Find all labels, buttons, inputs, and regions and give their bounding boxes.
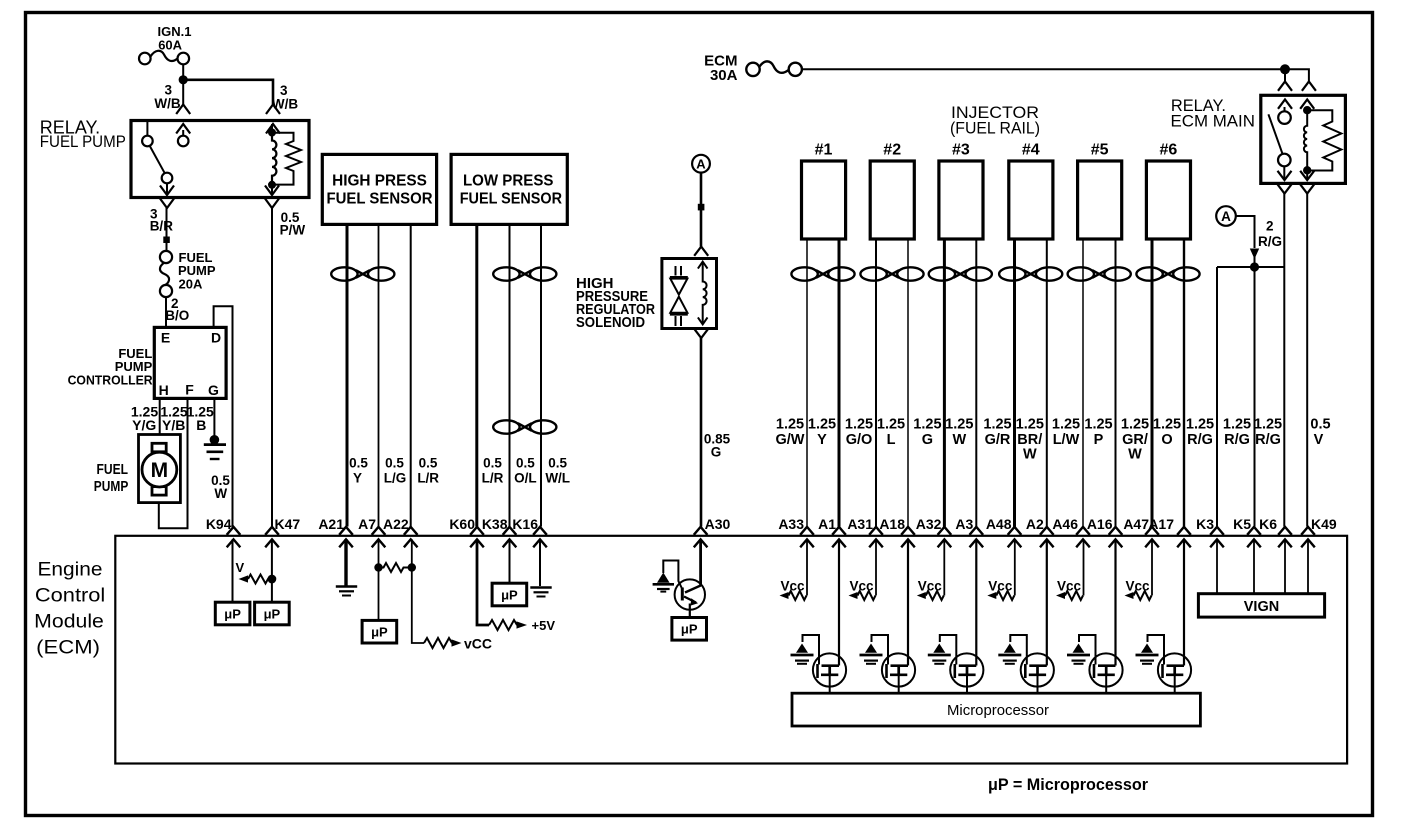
injector #4 wire 2 xyxy=(1046,239,1048,527)
svg-text:ECM MAIN: ECM MAIN xyxy=(1171,111,1255,130)
svg-text:E: E xyxy=(161,330,170,346)
svg-text:μP = Microprocessor: μP = Microprocessor xyxy=(988,775,1148,794)
injector #5 wire 1 xyxy=(1082,239,1084,527)
svg-text:H: H xyxy=(159,382,169,398)
uP box A7 xyxy=(362,620,397,643)
svg-text:PUMP: PUMP xyxy=(94,478,129,495)
svg-text:L/R: L/R xyxy=(482,471,504,486)
svg-text:G: G xyxy=(208,382,219,398)
label 0.5 W xyxy=(211,473,230,501)
fuse ECM 30A xyxy=(704,53,802,85)
svg-text:M: M xyxy=(151,459,169,482)
wire sensor to A7 xyxy=(378,224,380,526)
svg-text:FUEL: FUEL xyxy=(97,461,129,478)
svg-text:A47: A47 xyxy=(1123,516,1149,532)
wire IGN.1 fuse to junction xyxy=(182,64,184,78)
injector #5 box xyxy=(1078,142,1122,240)
arrow out of solenoid xyxy=(694,329,708,338)
connector A32 xyxy=(916,516,951,547)
wire 2 B/O xyxy=(165,297,167,327)
injector #6 wire 1 xyxy=(1151,239,1154,527)
relay ECM MAIN coil xyxy=(1304,110,1307,170)
relay switch bottom circle xyxy=(1278,154,1291,167)
wire pin G to ground xyxy=(213,398,215,436)
fuse FUEL PUMP 20A xyxy=(160,251,172,297)
motor brush bottom xyxy=(152,487,166,496)
zener pair inside solenoid xyxy=(670,266,688,326)
svg-text:W/L: W/L xyxy=(545,471,570,486)
twisted pair injector #2 xyxy=(860,267,923,280)
svg-text:Microprocessor: Microprocessor xyxy=(947,703,1049,719)
relay switch contact circle B xyxy=(178,136,189,147)
svg-text:FUEL PUMP: FUEL PUMP xyxy=(40,132,126,151)
splice square on solenoid wire xyxy=(698,204,705,211)
gate ground triangle (A30) xyxy=(653,573,674,592)
svg-text:A32: A32 xyxy=(916,516,942,532)
injector #1 wire 2 xyxy=(838,239,841,527)
injector driver #1 (FET + Vcc + gate clamp) xyxy=(780,539,847,693)
wire 0.85 G to A30 xyxy=(700,338,703,527)
svg-text:Engine: Engine xyxy=(38,560,103,581)
svg-text:Y/G: Y/G xyxy=(132,417,156,433)
svg-text:#2: #2 xyxy=(883,142,901,159)
wire 0.5 P/W relay to K47 xyxy=(271,208,273,527)
svg-text:W: W xyxy=(1023,447,1037,463)
wire pin F loop to motor bottom xyxy=(159,398,188,528)
injector driver #2 (FET + Vcc + gate clamp) xyxy=(849,539,916,693)
injector #5 wire 2 xyxy=(1115,239,1117,527)
label 3 B/R xyxy=(150,207,174,234)
wire sensor to A22 xyxy=(410,224,412,526)
wire junction right branch xyxy=(1285,69,1309,81)
label RELAY FUEL PUMP xyxy=(40,118,126,152)
relay switch blade xyxy=(150,146,165,173)
svg-text:W: W xyxy=(952,432,966,448)
svg-text:R/G: R/G xyxy=(1258,234,1282,249)
svg-text:1.25: 1.25 xyxy=(1153,417,1181,433)
relay FUEL PUMP box xyxy=(131,121,309,198)
injector #2 wire 1 xyxy=(875,239,877,527)
svg-text:A33: A33 xyxy=(778,516,804,532)
svg-text:K16: K16 xyxy=(512,516,538,532)
connector A2 xyxy=(1026,516,1054,547)
node A (solenoid top) xyxy=(692,155,710,173)
wire pin H to motor xyxy=(159,398,161,435)
arrows into ECM main relay right xyxy=(1300,82,1316,109)
svg-text:O: O xyxy=(1161,432,1172,448)
svg-text:1.25: 1.25 xyxy=(877,417,905,433)
motor brush top xyxy=(152,443,166,452)
injector #3 wire 2 xyxy=(975,239,977,527)
wire relay switch to K6 xyxy=(1283,194,1285,527)
junction dot coil bottom xyxy=(1303,166,1311,174)
relay coil xyxy=(272,133,276,185)
fuel pump controller box xyxy=(154,327,226,398)
svg-text:R/G: R/G xyxy=(1187,432,1213,448)
svg-text:L: L xyxy=(887,432,896,448)
relay coil branch wire xyxy=(271,124,273,133)
wire K38 to uP xyxy=(509,539,511,582)
label 3 W/B left xyxy=(154,82,180,111)
wire A30 to transistor xyxy=(699,539,702,586)
svg-text:SOLENOID: SOLENOID xyxy=(576,314,645,331)
svg-text:B/O: B/O xyxy=(165,308,189,323)
injector #2 wire 2 xyxy=(907,239,909,527)
svg-text:1.25: 1.25 xyxy=(1052,417,1080,433)
solid arrow down on R/G wire xyxy=(1250,249,1259,260)
relay coil parallel resistor xyxy=(272,133,301,185)
wire sensor to K38 xyxy=(509,224,511,526)
injector #6 wire 2 xyxy=(1183,239,1185,527)
wire switch to box bottom xyxy=(1283,166,1285,179)
svg-text:FUEL SENSOR: FUEL SENSOR xyxy=(460,191,563,208)
svg-text:A21: A21 xyxy=(318,516,344,532)
wire 3 B/R xyxy=(166,208,168,252)
connector K3 xyxy=(1196,516,1224,547)
svg-text:+5V: +5V xyxy=(532,618,556,633)
svg-text:(FUEL RAIL): (FUEL RAIL) xyxy=(950,119,1040,138)
wire K60 to +5V resistor xyxy=(477,539,489,625)
svg-text:K94: K94 xyxy=(206,516,232,532)
wire K6 to VIGN xyxy=(1284,539,1286,593)
svg-text:A30: A30 xyxy=(705,516,731,532)
twisted pair injector #5 xyxy=(1068,267,1131,280)
wire K16 to ground xyxy=(539,539,541,586)
wire sensor to A21 xyxy=(346,224,349,526)
svg-text:A3: A3 xyxy=(955,516,973,532)
resistor A22 VCC xyxy=(424,638,462,648)
svg-text:A18: A18 xyxy=(879,516,905,532)
ground for pin G (dot + bars) xyxy=(204,435,226,459)
svg-text:Y/B: Y/B xyxy=(162,417,185,433)
twisted pair injector #3 xyxy=(929,267,992,280)
wire ECM 30A to ECM MAIN relay xyxy=(802,68,1285,70)
connector A22 xyxy=(383,516,417,547)
arrows into ECM main relay left xyxy=(1278,82,1292,109)
arrows out of relay bottom left xyxy=(160,186,174,209)
svg-text:V: V xyxy=(236,560,245,575)
wire coil to box bottom xyxy=(1306,170,1308,179)
svg-text:A17: A17 xyxy=(1148,516,1174,532)
svg-text:0.5: 0.5 xyxy=(385,456,404,471)
svg-text:20A: 20A xyxy=(179,277,203,292)
svg-text:1.25: 1.25 xyxy=(983,417,1011,433)
injector #4 box xyxy=(1009,142,1053,240)
svg-text:R/G: R/G xyxy=(1224,432,1250,448)
transistor Q (A30 driver) xyxy=(663,561,705,617)
connector K49 xyxy=(1301,516,1337,547)
relay switch contact circle A xyxy=(142,136,153,147)
arrows out of ECM main relay left xyxy=(1278,171,1292,194)
relay ECM MAIN box xyxy=(1261,95,1346,183)
injector #3 wire 1 xyxy=(943,239,946,527)
motor circle M xyxy=(142,452,177,487)
wire to K3 xyxy=(1216,267,1218,527)
svg-text:A16: A16 xyxy=(1087,516,1113,532)
svg-text:V: V xyxy=(1314,432,1324,448)
high press fuel sensor box xyxy=(322,154,436,224)
horizontal R/G bus xyxy=(1217,266,1284,268)
svg-text:A: A xyxy=(1221,209,1231,224)
wire A to solenoid xyxy=(700,173,703,247)
svg-text:A: A xyxy=(696,157,706,172)
VIGN box xyxy=(1198,594,1324,617)
connector A18 xyxy=(879,516,914,547)
twisted pair low press upper xyxy=(493,267,556,280)
connector K6 xyxy=(1259,516,1292,547)
label HIGH PRESSURE REGULATOR SOLENOID xyxy=(576,275,655,331)
label 0.85 G xyxy=(704,432,731,460)
ground K16 xyxy=(530,588,551,597)
wire sensor to K16 xyxy=(540,224,542,526)
injector driver #6 (FET + Vcc + gate clamp) xyxy=(1125,539,1192,693)
svg-text:W: W xyxy=(1128,447,1142,463)
connector A46 xyxy=(1052,516,1089,547)
svg-text:A31: A31 xyxy=(847,516,873,532)
connector K60 xyxy=(449,516,483,547)
relay switch wire in xyxy=(1284,107,1286,111)
svg-text:VIGN: VIGN xyxy=(1244,599,1279,615)
labels 0.5 L/R | 0.5 O/L | 0.5 W/L xyxy=(482,456,570,486)
resistor A7-A22 xyxy=(374,563,416,572)
svg-text:0.5: 0.5 xyxy=(1310,417,1330,433)
svg-text:HIGH PRESS: HIGH PRESS xyxy=(332,172,427,189)
label INJECTOR (FUEL RAIL) xyxy=(950,103,1040,138)
wire switch output to box bottom xyxy=(166,183,168,194)
svg-text:Y: Y xyxy=(817,432,827,448)
svg-text:Module: Module xyxy=(34,612,104,633)
wire sensor to K60 xyxy=(475,224,478,526)
uP box K94 xyxy=(215,602,250,625)
svg-text:60A: 60A xyxy=(158,38,182,53)
wire into contact B xyxy=(182,130,184,136)
svg-text:B: B xyxy=(196,417,206,433)
connector A21 xyxy=(318,516,352,547)
svg-text:0.5: 0.5 xyxy=(548,456,567,471)
svg-text:K38: K38 xyxy=(482,516,508,532)
label FUEL PUMP (motor) xyxy=(94,461,129,495)
connector A48 xyxy=(986,516,1021,547)
ground A21 xyxy=(336,587,357,596)
svg-text:R/G: R/G xyxy=(1255,432,1281,448)
wire K5 to VIGN xyxy=(1253,539,1255,593)
wire relay coil to K49 xyxy=(1306,194,1308,527)
svg-text:L/R: L/R xyxy=(417,471,439,486)
injector #6 box xyxy=(1146,142,1190,240)
connector A7 xyxy=(358,516,385,547)
relay switch top circle xyxy=(1278,111,1291,124)
wire node A to junction xyxy=(1236,216,1255,248)
svg-text:G/W: G/W xyxy=(776,432,805,448)
junction dot coil top xyxy=(268,129,276,137)
svg-text:0.5: 0.5 xyxy=(516,456,535,471)
svg-text:0.5: 0.5 xyxy=(419,456,438,471)
twisted pair high press xyxy=(331,267,394,280)
svg-text:B/R: B/R xyxy=(150,219,174,234)
injector driver #3 (FET + Vcc + gate clamp) xyxy=(917,539,984,693)
svg-text:#5: #5 xyxy=(1091,142,1109,159)
wire size labels injector/relay rows xyxy=(776,417,1331,463)
node A (right) xyxy=(1216,206,1236,226)
wire coil bottom to box bottom xyxy=(271,185,273,194)
uP box K38 xyxy=(492,583,527,606)
label 3 W/B right xyxy=(272,83,298,111)
solenoid box xyxy=(662,259,717,329)
fuel pump motor box xyxy=(139,435,181,503)
svg-text:FUEL SENSOR: FUEL SENSOR xyxy=(327,191,433,208)
connector K16 xyxy=(512,516,546,547)
connector arrows into relay fuel pump (right) xyxy=(266,105,280,134)
Microprocessor box xyxy=(792,693,1200,726)
svg-text:1.25: 1.25 xyxy=(1223,417,1251,433)
relay ECM MAIN parallel resistor xyxy=(1307,110,1341,170)
arrows out of relay bottom right xyxy=(265,186,279,209)
svg-text:G: G xyxy=(711,445,722,460)
wire A7 to uP xyxy=(378,539,380,620)
twisted pair injector #1 xyxy=(791,267,854,280)
svg-text:A46: A46 xyxy=(1052,516,1078,532)
twisted pair low press lower xyxy=(493,420,556,433)
svg-text:CONTROLLER: CONTROLLER xyxy=(68,373,154,388)
svg-text:30A: 30A xyxy=(710,67,738,84)
svg-text:F: F xyxy=(185,382,194,398)
injector #1 box xyxy=(802,142,846,240)
connector A47 xyxy=(1123,516,1158,547)
svg-text:G/O: G/O xyxy=(846,432,873,448)
uP box A30 xyxy=(672,618,707,641)
injector #3 box xyxy=(939,142,983,240)
resistor K94-K47 with left arrow xyxy=(239,575,277,584)
connector A17 xyxy=(1148,516,1190,547)
svg-text:K6: K6 xyxy=(1259,516,1277,532)
svg-text:L/G: L/G xyxy=(384,471,407,486)
wire junction down to relay xyxy=(182,80,184,105)
svg-text:1.25: 1.25 xyxy=(776,417,804,433)
wire A21 to ground xyxy=(344,539,347,585)
svg-text:L/W: L/W xyxy=(1053,432,1080,448)
wire to K5 xyxy=(1254,267,1256,527)
svg-text:#4: #4 xyxy=(1022,142,1040,159)
arrows out of ECM main relay right xyxy=(1300,171,1314,194)
svg-text:A2: A2 xyxy=(1026,516,1044,532)
relay switch output circle xyxy=(162,173,173,184)
svg-text:1.25: 1.25 xyxy=(808,417,836,433)
connector K94 xyxy=(206,516,240,547)
svg-text:Y: Y xyxy=(353,471,362,486)
injector #2 box xyxy=(870,142,914,240)
twisted pair injector #4 xyxy=(999,267,1062,280)
twisted pair injector #6 xyxy=(1136,267,1199,280)
svg-text:LOW PRESS: LOW PRESS xyxy=(463,172,554,189)
fuse IGN.1 60A xyxy=(139,24,191,64)
wire pin D loop to K94 xyxy=(214,306,233,526)
svg-text:W/B: W/B xyxy=(154,96,180,111)
svg-text:G/R: G/R xyxy=(985,432,1011,448)
wire A22 to VCC resistor xyxy=(412,539,424,643)
svg-text:K49: K49 xyxy=(1311,516,1337,532)
svg-text:K47: K47 xyxy=(275,516,301,532)
svg-text:W: W xyxy=(214,486,227,501)
svg-text:1.25: 1.25 xyxy=(1121,417,1149,433)
svg-text:1.25: 1.25 xyxy=(845,417,873,433)
labels 1.25 Y/G | 1.25 Y/B | 1.25 B xyxy=(131,404,214,433)
splice square B/R xyxy=(163,237,170,244)
svg-text:1.25: 1.25 xyxy=(1254,417,1282,433)
junction dot ECM main xyxy=(1280,64,1290,74)
junction dot W/B xyxy=(179,75,188,84)
relay switch blade xyxy=(1268,114,1282,154)
label FUEL PUMP CONTROLLER xyxy=(68,346,154,388)
label 2 B/O xyxy=(165,296,189,323)
wire K94 to uP xyxy=(232,539,234,602)
wire K3 to VIGN xyxy=(1216,539,1218,593)
connector arrows into relay fuel pump (left) xyxy=(176,105,190,134)
svg-text:O/L: O/L xyxy=(514,471,537,486)
svg-text:G: G xyxy=(922,432,933,448)
svg-text:1.25: 1.25 xyxy=(1084,417,1112,433)
svg-text:1.25: 1.25 xyxy=(1186,417,1214,433)
svg-text:P/W: P/W xyxy=(280,222,306,237)
low press fuel sensor box xyxy=(451,154,567,224)
relay switch contact stub xyxy=(146,122,148,136)
connector A1 xyxy=(818,516,846,547)
connector A16 xyxy=(1087,516,1122,547)
svg-text:0.5: 0.5 xyxy=(483,456,502,471)
labels 0.5 Y | 0.5 L/G | 0.5 L/R xyxy=(349,456,439,486)
uP box K47 xyxy=(255,602,290,625)
svg-text:#3: #3 xyxy=(952,142,970,159)
svg-text:1.25: 1.25 xyxy=(1016,417,1044,433)
svg-text:A1: A1 xyxy=(818,516,836,532)
ECM box xyxy=(115,536,1347,764)
svg-text:K3: K3 xyxy=(1196,516,1214,532)
svg-text:P: P xyxy=(1094,432,1104,448)
svg-text:(ECM): (ECM) xyxy=(36,638,100,659)
wire K47 to uP xyxy=(271,539,273,602)
wire K49 to VIGN xyxy=(1307,539,1309,593)
svg-text:#6: #6 xyxy=(1160,142,1178,159)
svg-text:D: D xyxy=(211,330,221,346)
injector driver #4 (FET + Vcc + gate clamp) xyxy=(987,539,1054,693)
connector A30 xyxy=(694,516,731,547)
svg-text:A22: A22 xyxy=(383,516,409,532)
label 2 R/G xyxy=(1258,218,1282,249)
label 0.5 P/W xyxy=(280,210,306,237)
connector K5 xyxy=(1233,516,1261,547)
connector K47 xyxy=(265,516,300,547)
solenoid coil with arrows xyxy=(698,262,708,325)
svg-text:Control: Control xyxy=(35,586,105,607)
svg-text:#1: #1 xyxy=(815,142,833,159)
wire junction to right branch xyxy=(183,80,273,105)
connector A31 xyxy=(847,516,882,547)
label RELAY ECM MAIN xyxy=(1171,96,1255,130)
svg-text:K60: K60 xyxy=(449,516,475,532)
connector A3 xyxy=(955,516,983,547)
svg-text:0.5: 0.5 xyxy=(349,456,368,471)
label FUEL PUMP 20A xyxy=(178,250,216,292)
junction dot R/G xyxy=(1250,262,1259,271)
svg-text:K5: K5 xyxy=(1233,516,1251,532)
svg-text:1.25: 1.25 xyxy=(913,417,941,433)
label Engine Control Module (ECM) xyxy=(34,560,105,659)
injector #4 wire 1 xyxy=(1013,239,1016,527)
connector A33 xyxy=(778,516,813,547)
injector driver #5 (FET + Vcc + gate clamp) xyxy=(1056,539,1123,693)
relay coil wire + dot top xyxy=(1306,107,1308,112)
injector #1 wire 1 xyxy=(806,239,808,527)
junction dot coil bottom xyxy=(268,181,276,189)
